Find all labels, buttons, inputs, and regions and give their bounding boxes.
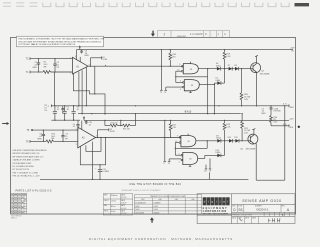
approvals table [103, 194, 133, 215]
svg-text:PARTS LIST A-PL-G020-0-5: PARTS LIST A-PL-G020-0-5 [16, 189, 52, 192]
Q4 designator [240, 148, 256, 150]
junction on output wire [161, 66, 162, 67]
wire cap bottom bus [51, 119, 80, 121]
wire D4 to junction [221, 68, 229, 70]
gate U4b (NOR) ch2 [183, 152, 198, 164]
wire D11 to D12 [233, 140, 236, 142]
wire from rail2 to T7 terminal [164, 120, 166, 161]
svg-text:USE THE ETCH BOARD IN THE B10: USE THE ETCH BOARD IN THE B10 [129, 183, 181, 186]
stub U2a pin14 [190, 62, 192, 64]
svg-text:CIRCUITS ARE PROPRIETARY IN NA: CIRCUITS ARE PROPRIETARY IN NATURE AND S… [18, 40, 102, 43]
R16 value label [172, 54, 177, 58]
wire divider chain [105, 114, 136, 126]
svg-text:TN P608: TN P608 [273, 111, 280, 113]
svg-text:D-664: D-664 [153, 209, 158, 211]
wire U1 pin drop 4 [85, 67, 87, 106]
diode D11 [229, 139, 233, 143]
svg-text:10%: 10% [273, 122, 277, 124]
node T6 input terminal ch2 [26, 140, 30, 143]
junction cross-couple [175, 76, 176, 77]
wire T5 to amp A2 [33, 129, 78, 131]
svg-text:MFD: MFD [33, 67, 38, 69]
resistor R24 [270, 106, 273, 126]
capacitor C5a [63, 106, 67, 120]
+10V label (right end of rail) [290, 47, 296, 52]
stub U4b pin7 [189, 165, 191, 167]
junction dots C1 [38, 58, 39, 73]
U4a input bubbles [179, 136, 181, 138]
svg-text:CORPORATION: CORPORATION [203, 210, 227, 213]
wire cross-couple vertical right [207, 69, 209, 77]
wire diode junction vertical [224, 69, 226, 83]
C2 value label [57, 62, 60, 69]
resistor R20 [240, 69, 243, 106]
svg-text:+10V: +10V [290, 47, 296, 49]
junction loop top [284, 105, 285, 106]
node T3 terminal [160, 90, 163, 94]
node E2 terminal [102, 56, 108, 61]
wire D7 to D8 [232, 68, 235, 70]
dec logo caption [203, 207, 229, 215]
wire cross-couple horizontal ch2 [175, 147, 207, 149]
junction C6 [73, 105, 74, 121]
D10 label [216, 150, 221, 154]
node BLK terminal [283, 124, 294, 129]
R21 value label [51, 133, 56, 140]
junction R16 bottom [170, 66, 171, 67]
diode D9 [217, 139, 221, 143]
diode D12 [235, 139, 239, 143]
svg-text:-B A10: -B A10 [184, 110, 192, 113]
alignment arrow bottom [150, 217, 154, 222]
junction R20 top [241, 68, 242, 69]
wire D8 to Q3 base [239, 68, 253, 70]
wire down from T1 line to lower bus [54, 72, 56, 106]
op-amp U1 (A1) [73, 57, 89, 74]
R19 value label [226, 53, 231, 57]
wire U4b output jog [204, 155, 206, 158]
title block dividers [231, 194, 233, 224]
svg-text:4-23-69: 4-23-69 [121, 213, 126, 215]
resistor R19 pull-up [223, 50, 226, 69]
wire cross-couple vertical right ch2 [206, 141, 208, 149]
dec form footnote [11, 216, 22, 220]
wire D10 to junction [221, 154, 225, 156]
U4a pin labels [175, 135, 190, 143]
D9 label [216, 135, 221, 139]
junction cross-couple ch2 [175, 148, 176, 149]
svg-text:MFD: MFD [38, 138, 43, 140]
gate U2a (NOR) [183, 64, 198, 74]
resistor R17 pull-up ch2 [169, 120, 172, 137]
svg-text:PIN 7 ON EACH IC = GND: PIN 7 ON EACH IC = GND [13, 171, 39, 174]
junction dot diodes [224, 68, 225, 69]
svg-text:TRANSISTOR & DIODE CONVERSION: TRANSISTOR & DIODE CONVERSION CHART [150, 195, 186, 198]
Q4 collector test point [252, 129, 255, 135]
transistor Q3 [251, 63, 261, 73]
bus B (signal bus) [78, 113, 241, 115]
parts list cell text (illegible) [12, 195, 27, 213]
diode D4 [217, 67, 221, 71]
svg-text:DEC3009B: DEC3009B [246, 148, 256, 150]
junction C4a [54, 105, 55, 121]
wire D12 to Q4 base [239, 140, 250, 142]
junction output branch [90, 66, 91, 67]
junction small loop [100, 137, 101, 138]
wire cross-couple vertical left [175, 71, 177, 82]
wire small loop below U3 [86, 138, 101, 152]
parts list table [11, 193, 27, 214]
svg-text:10%: 10% [244, 133, 248, 135]
U2b input bubbles [183, 82, 185, 84]
junction R17 bottom [170, 137, 171, 138]
junction gate out [214, 84, 215, 85]
svg-text:D-MA909: D-MA909 [153, 201, 160, 204]
capacitor C6 [72, 106, 76, 120]
svg-text:1.5K: 1.5K [226, 127, 231, 129]
bus B junctions [91, 113, 136, 114]
bottom bus ch2 [40, 178, 248, 180]
component cluster labels (R3 C4 area) [44, 105, 79, 112]
svg-text:DIGITAL EQUIPMENT CORPORATION: DIGITAL EQUIPMENT CORPORATION · MAYNARD,… [89, 237, 233, 241]
wire U1 pin drop 3 [81, 70, 83, 114]
microfilm strip box [158, 31, 230, 38]
svg-text:2: 2 [164, 32, 166, 36]
junction R24 top [270, 105, 271, 106]
wire U2a output to diode D4 [198, 68, 217, 70]
svg-text:THIS SCHEMATIC IS FURNISHED ON: THIS SCHEMATIC IS FURNISHED ONLY FOR TES… [18, 38, 105, 41]
svg-text:D662: D662 [135, 206, 139, 208]
svg-text:D8: D8 [234, 65, 236, 67]
svg-text:D664: D664 [135, 209, 139, 211]
U3 pin numbers [76, 129, 98, 146]
svg-text:DEC3009B: DEC3009B [135, 213, 144, 215]
wire U3 pin8 to rail2 [81, 120, 83, 129]
handwriting marks [239, 218, 280, 223]
svg-text:.01: .01 [73, 126, 76, 128]
svg-text:MFD: MFD [262, 113, 267, 115]
+10V rail (lower, ch2) [84, 119, 289, 121]
wire U1 output [88, 65, 183, 67]
svg-text:3: 3 [70, 73, 71, 75]
wire U1 pin drop 2 [78, 72, 80, 106]
R22 value label [244, 128, 250, 135]
C3 value label [85, 50, 90, 57]
resistor R22 ch2 [241, 114, 244, 141]
C9 value label [65, 134, 68, 141]
svg-text:T8: T8 [209, 171, 211, 173]
svg-text:2N3009: 2N3009 [153, 213, 159, 215]
svg-text:t: t [220, 200, 221, 204]
svg-text:DEC FORM NO: DEC FORM NO [11, 216, 22, 218]
diode D10 [217, 154, 221, 158]
Q3 designator [260, 70, 270, 75]
stub U4a pin14 [187, 134, 189, 136]
svg-text:SS: SS [238, 208, 242, 212]
junction U4a output [207, 140, 208, 141]
U4b pin labels [179, 153, 193, 163]
junction output drop 2 [214, 113, 215, 114]
wire branch up ch2 [97, 130, 99, 138]
wire cross-couple horizontal [176, 76, 208, 78]
svg-text:EY IS DEC74174: EY IS DEC74174 [13, 169, 30, 171]
wire right edge loop up [284, 106, 286, 180]
svg-text:R.Blando: R.Blando [111, 195, 118, 197]
svg-text:D-662: D-662 [153, 206, 158, 208]
diode D8 [235, 67, 239, 71]
svg-text:+10V: +10V [289, 118, 295, 120]
node 4 tick [48, 104, 52, 107]
wire gate U2 lower input from T4 [165, 87, 167, 90]
svg-text:DIODES ARE D662: DIODES ARE D662 [13, 162, 33, 165]
wire U4b output to D10 [205, 154, 218, 156]
junction C5a [64, 105, 65, 121]
svg-text:D11: D11 [228, 137, 231, 139]
Q3 collector test point [255, 55, 258, 63]
wire U4b lower input [169, 158, 181, 160]
svg-text:10 B1: 10 B1 [102, 59, 107, 61]
svg-text:T4: T4 [164, 92, 166, 94]
svg-text:4-21-69: 4-21-69 [121, 208, 126, 210]
wire U2b lower input from T4 [166, 86, 183, 88]
svg-text:.01: .01 [88, 124, 91, 126]
wire U2a lower input [176, 70, 182, 72]
strip text C-0000 [164, 32, 227, 38]
svg-text:a: a [223, 200, 225, 204]
junction BLK crossing [284, 125, 285, 126]
svg-text:10 MFD: 10 MFD [102, 171, 109, 173]
junction on U2a output [207, 68, 208, 69]
R20 value label [244, 94, 250, 101]
title block outer [197, 194, 295, 224]
svg-text:PIN 14 ON EACH IC = +10V: PIN 14 ON EACH IC = +10V [13, 175, 41, 178]
wire output sense drop [94, 66, 96, 94]
node WHT terminal [283, 104, 295, 109]
+10V supply arrow [79, 45, 81, 49]
svg-text:4-18-69: 4-18-69 [121, 203, 126, 205]
stub below gate U4b 2 [209, 158, 212, 172]
junction rail / T3 drop [161, 49, 162, 50]
svg-text:TP1: TP1 [291, 50, 294, 52]
resistor R13 [110, 124, 118, 127]
wire branch up [90, 58, 92, 66]
U2a pin labels [177, 64, 193, 71]
wire to D5 [214, 82, 217, 84]
node T7 terminal [163, 161, 166, 165]
node T2 input terminal [26, 57, 30, 60]
stub below gate U4b 1 [204, 165, 207, 173]
svg-text:UNLESS OTHERWISE INDICATED:: UNLESS OTHERWISE INDICATED: [13, 149, 48, 152]
svg-text:COPYRIGHT 1969 BY DIGITAL EQUI: COPYRIGHT 1969 BY DIGITAL EQUIPMENT CORP… [18, 43, 76, 46]
D5 label [216, 78, 221, 82]
wire U1 pin 4 staircase [73, 74, 105, 114]
svg-text:G020-0-1: G020-0-1 [256, 208, 269, 212]
svg-text:CAPACITORS ARE .01 MFD: CAPACITORS ARE .01 MFD [13, 159, 41, 162]
wire R21 to amp [54, 140, 78, 142]
capacitor C7 labels [262, 108, 267, 115]
bus A junctions [73, 105, 257, 106]
svg-text:EQUIVALENT: EQUIVALENT [135, 201, 146, 204]
svg-text:2: 2 [76, 129, 77, 131]
svg-text:E1, E2 ARE DEC6380: E1, E2 ARE DEC6380 [13, 165, 35, 168]
svg-text:4-17-69: 4-17-69 [121, 197, 126, 199]
R17 value label [173, 125, 178, 129]
U4b input bubbles [181, 154, 183, 156]
svg-text:3: 3 [76, 144, 77, 146]
svg-text:PRINTED CIRCUIT REV.: PRINTED CIRCUIT REV. [232, 214, 253, 216]
svg-text:A1: A1 [204, 170, 206, 173]
svg-text:1.5K: 1.5K [226, 56, 231, 58]
svg-text:REV: REV [282, 205, 285, 207]
node T5 input terminal ch2 [27, 129, 33, 132]
svg-text:2: 2 [70, 58, 71, 60]
conversion chart [134, 195, 201, 215]
diode D7 [229, 67, 233, 71]
wire D9 to junction [221, 140, 229, 142]
wire branch to terminal F [98, 129, 109, 131]
wire U2b upper input [176, 81, 183, 83]
junction dots C8 [43, 129, 44, 142]
svg-text:D664: D664 [216, 138, 221, 140]
capacitor C4a [53, 106, 57, 120]
junction T7 on out wire [164, 137, 165, 138]
svg-text:T7: T7 [163, 163, 165, 165]
svg-text:T3: T3 [160, 92, 162, 94]
junction sense drop [94, 93, 95, 94]
op-amp U3 (A2) [78, 127, 96, 148]
junction dots C9 [62, 129, 63, 142]
resistor R16 [169, 50, 172, 67]
R1 value label [44, 62, 49, 69]
svg-text:4: 4 [180, 89, 181, 91]
svg-text:5: 5 [179, 153, 180, 155]
svg-text:10 B2: 10 B2 [110, 131, 115, 133]
junction output drop [207, 113, 208, 114]
approvals text [104, 194, 126, 216]
svg-text:1 C-G020: 1 C-G020 [190, 32, 203, 36]
note box (proprietary notice) [17, 36, 105, 47]
svg-text:D.Mull: D.Mull [111, 211, 116, 213]
notes block [13, 149, 48, 178]
capacitor C3 [80, 50, 83, 54]
junction C12 top [99, 164, 100, 165]
D4 label [216, 63, 221, 67]
junction rail2 T7 [164, 120, 165, 121]
dec logo [203, 197, 231, 205]
wire R1 to amp [51, 71, 73, 73]
gate U4a (NOR) ch2 [181, 136, 196, 147]
svg-text:R13 220: R13 220 [111, 122, 118, 124]
junction pin drop 2 [78, 105, 79, 106]
wire U1 pin8 to +10V rail [76, 50, 78, 60]
capacitor C12 (polarized) [98, 165, 102, 180]
junction R19 top [224, 49, 225, 50]
svg-text:SENSE AMP G020: SENSE AMP G020 [242, 199, 282, 203]
wire big loop below U3 [80, 138, 105, 165]
capacitor C9 [61, 130, 64, 141]
svg-text:SENSE AMP G020-0-1 CIRCUIT SCH: SENSE AMP G020-0-1 CIRCUIT SCHEMATIC [122, 189, 162, 192]
wire U4a lower input [175, 142, 179, 144]
capacitor C1 [37, 59, 40, 72]
R23 value label [226, 124, 231, 128]
wire U4b output [198, 157, 205, 159]
ink speck [298, 126, 300, 128]
svg-text:D664: D664 [216, 80, 221, 82]
svg-text:5%: 5% [44, 110, 47, 112]
svg-text:.01: .01 [57, 109, 60, 111]
junction R22 [241, 113, 242, 141]
wire emitter bottom across [256, 179, 285, 181]
svg-text:MF RESISTORS ARE 1/8W; 1%: MF RESISTORS ARE 1/8W; 1% [13, 155, 44, 158]
wire output drop to bus [207, 77, 209, 114]
diode D5 [217, 81, 221, 85]
C8 value label [38, 134, 43, 141]
C5 label [73, 124, 76, 128]
capacitor C15 labels [273, 108, 280, 113]
wire T1 to resistor R1 [30, 71, 43, 73]
svg-text:R14 220: R14 220 [123, 129, 130, 131]
svg-text:D664: D664 [216, 65, 221, 67]
svg-text:T8: T8 [168, 163, 170, 165]
node T8 terminal [168, 161, 171, 165]
gate U2b (NOR) [184, 80, 199, 91]
svg-text:9: 9 [177, 135, 178, 137]
capacitor C10 [85, 120, 88, 124]
svg-text:MFD: MFD [85, 55, 90, 57]
alignment arrow top [151, 31, 155, 37]
wire branch to terminal E [91, 57, 102, 59]
wire stub to bottom bus [209, 172, 211, 179]
stub U1 pin1 [79, 57, 81, 62]
resistor R14 [123, 124, 131, 127]
U2a input bubbles [182, 65, 184, 67]
junction dot diodes ch2 [224, 140, 225, 141]
svg-text:D7: D7 [228, 65, 230, 67]
junction R16 top [170, 49, 171, 50]
wire U4b upper input ch2 [175, 154, 181, 156]
film marker solid (top right) [295, 3, 310, 6]
conversion chart text [135, 195, 195, 215]
capacitor C5 [76, 120, 79, 130]
svg-text:8: 8 [75, 56, 76, 58]
capacitor C2 [53, 59, 56, 72]
node T4 terminal [164, 90, 167, 94]
svg-text:DRN: DRN [104, 195, 107, 197]
divider junctions [104, 120, 121, 126]
wire U4a output to D9 [196, 140, 217, 142]
svg-text:g: g [211, 200, 213, 204]
C10 value label [88, 122, 91, 126]
wire Q4 emitter down [255, 143, 257, 180]
pin stub on output [105, 65, 107, 66]
node T1 input terminal [26, 71, 30, 74]
svg-text:4: 4 [179, 162, 180, 164]
date row cells [237, 216, 258, 223]
wire T2 to amp [30, 58, 73, 60]
C1 value label [33, 62, 38, 69]
wire from rail to T3 terminal [160, 50, 162, 91]
wire U3 output [96, 137, 181, 139]
U2b pin labels [180, 81, 194, 91]
resistor R1 [43, 71, 51, 74]
wire Q3 emitter down [256, 72, 258, 106]
svg-text:Q3: Q3 [261, 70, 264, 72]
size/code/number/rev row [237, 204, 281, 212]
svg-text:10%: 10% [244, 99, 248, 101]
svg-text:D12: D12 [234, 137, 237, 139]
wire cross-couple vertical left ch2 [174, 143, 176, 156]
junction big loop [105, 137, 106, 138]
